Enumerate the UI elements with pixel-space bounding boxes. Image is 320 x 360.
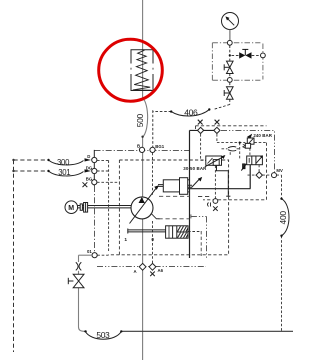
svg-text:240 BAR: 240 BAR [253,133,272,138]
svg-text:500: 500 [135,113,145,127]
svg-text:0: 0 [151,237,154,243]
svg-text:400: 400 [278,211,288,225]
svg-text:1: 1 [124,237,127,243]
svg-text:300: 300 [57,158,70,167]
svg-text:MV: MV [276,168,283,173]
svg-text:A6: A6 [158,268,164,273]
svg-text:301: 301 [58,168,70,177]
svg-text:30-50 BAR: 30-50 BAR [183,166,207,171]
svg-text:A: A [134,269,137,274]
svg-text:DG: DG [86,165,93,170]
svg-text:BG: BG [86,177,93,182]
svg-text:D: D [87,154,90,159]
svg-text:BG1: BG1 [155,144,164,149]
svg-text:B: B [137,144,140,149]
svg-text:503: 503 [96,330,110,340]
svg-text:406: 406 [184,107,198,117]
svg-text:01: 01 [87,249,92,254]
svg-text:M: M [68,205,74,212]
